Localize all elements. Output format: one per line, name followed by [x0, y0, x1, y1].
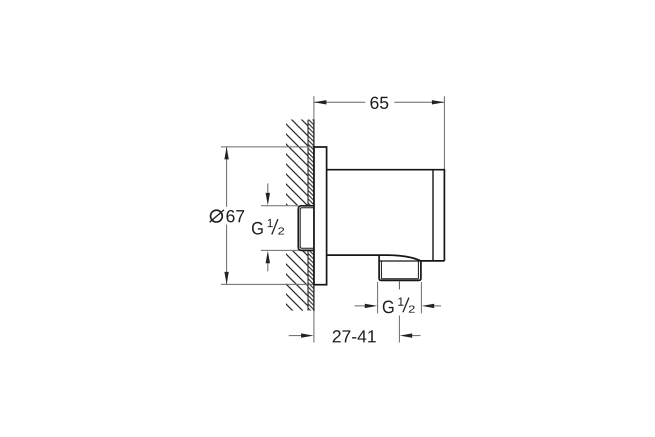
- arrowhead 65 left: [314, 100, 327, 104]
- dimension text 27-41: [333, 330, 376, 342]
- body bottom right edge: [421, 260, 445, 262]
- body bottom left edge: [327, 254, 388, 256]
- text G1/2 bottom: [383, 297, 415, 313]
- body right edge: [443, 169, 445, 261]
- inlet connector G1/2 socket: [298, 206, 314, 251]
- wall coarse hatch upper: [286, 120, 308, 206]
- flange (escutcheon): [314, 147, 327, 285]
- dimension line 27-41 right arrow: [410, 335, 421, 337]
- text G1/2 left: [252, 219, 284, 235]
- wall hatch boundary line upper: [307, 120, 309, 206]
- arrowhead 65 right: [432, 100, 445, 104]
- extension line G1/2 bottom left: [377, 282, 379, 313]
- wall fine hatch lower: [308, 251, 314, 311]
- extension line diameter top: [221, 146, 327, 148]
- wall coarse hatch lower: [286, 251, 308, 311]
- outlet center line lower segment (27-41 right extension): [398, 316, 400, 343]
- outlet center line upper segment: [398, 282, 400, 290]
- extension line 65 left / wall face upper: [313, 96, 315, 119]
- arrow G1/2 bottom left: [355, 305, 368, 307]
- extension line G1/2 left bottom: [261, 249, 298, 251]
- extension line G1/2 bottom right: [420, 282, 422, 313]
- extension line 65 right: [443, 96, 445, 169]
- wall hatch boundary line lower: [307, 251, 309, 311]
- wall face extension lower (27-41 left extension): [313, 311, 315, 343]
- dimension line 27-41 left arrow: [289, 335, 304, 337]
- dimension line diameter 67: [226, 147, 228, 285]
- arrowhead diameter top: [224, 147, 228, 160]
- body outline: [327, 169, 445, 261]
- elbow shoulder arc: [388, 255, 421, 261]
- outlet nut: [379, 255, 421, 280]
- arrow G1/2 bottom right: [431, 305, 441, 307]
- dimension text 65: [370, 97, 388, 109]
- extension line diameter bottom: [221, 283, 327, 285]
- dimension text diameter 67: [210, 210, 245, 222]
- wall face line: [313, 120, 315, 312]
- wall fine hatch upper: [308, 120, 314, 206]
- dimension line 65: [314, 101, 445, 103]
- arrowhead diameter bottom: [224, 272, 228, 285]
- arrow G1/2 left top: [267, 183, 269, 196]
- body top edge: [327, 169, 445, 171]
- end cap inner line: [432, 171, 434, 261]
- arrow G1/2 left bottom: [267, 260, 269, 271]
- extension line G1/2 left top: [261, 205, 298, 207]
